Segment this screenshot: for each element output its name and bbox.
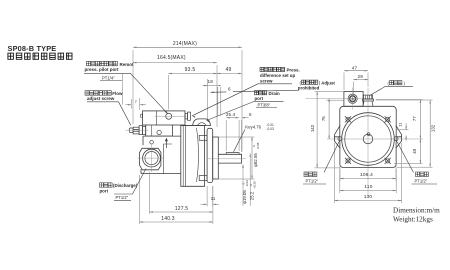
svg-text:(: (	[388, 81, 390, 86]
svg-text:difference set up: difference set up	[260, 73, 295, 78]
front view centerlines	[367, 88, 369, 196]
remote pilot port hole on block	[166, 113, 172, 119]
discharge port circles	[143, 149, 161, 167]
svg-text:7: 7	[135, 99, 138, 104]
svg-text:Key4.76: Key4.76	[245, 124, 261, 129]
shaft circle front view	[363, 134, 373, 144]
dim 11 flange thickness	[206, 186, 208, 207]
svg-text:25.4: 25.4	[226, 112, 236, 117]
right mounting tab	[396, 125, 402, 148]
dim 47	[343, 73, 345, 91]
pump rear housing side view	[141, 136, 181, 174]
pump body inner circle	[345, 116, 391, 162]
control block side view	[143, 111, 186, 125]
dome cap on top	[193, 119, 211, 126]
svg-text:Weight:12kgs: Weight:12kgs	[393, 216, 433, 224]
control block front view	[344, 92, 363, 107]
svg-text:142: 142	[310, 124, 315, 132]
svg-text:49: 49	[412, 148, 417, 153]
leader adjust prohibited	[233, 90, 299, 92]
svg-text:127.5: 127.5	[175, 206, 189, 212]
svg-text:93.5: 93.5	[185, 67, 196, 73]
dim 49	[216, 65, 218, 127]
leader drain port	[207, 102, 254, 121]
dim dia 82.55 spigot	[219, 136, 255, 138]
dim 25.4 key length	[225, 120, 227, 151]
pump front housing side view	[181, 126, 205, 187]
svg-text:25.2: 25.2	[250, 191, 255, 200]
bolt on sub-block	[157, 130, 161, 134]
dim 6	[217, 87, 219, 116]
svg-text:φ19.05: φ19.05	[242, 190, 247, 204]
sub-block below control block	[146, 125, 173, 136]
svg-text:): )	[404, 81, 406, 86]
leader air bleed	[370, 86, 386, 95]
svg-text:164.5(MAX): 164.5(MAX)	[157, 55, 186, 61]
svg-text:PT1/2": PT1/2"	[306, 179, 319, 184]
shaft side view	[218, 154, 241, 163]
svg-text:110: 110	[364, 184, 372, 190]
svg-text:-0.05: -0.05	[256, 142, 260, 149]
front flange plate	[340, 106, 396, 167]
svg-text:adjust screw: adjust screw	[87, 96, 115, 101]
svg-text:Remot: Remot	[120, 62, 135, 67]
svg-text:132: 132	[431, 124, 436, 132]
label adjust prohibited	[298, 80, 336, 91]
barrel curve inside front housing	[197, 128, 199, 182]
keyway circle front view	[367, 133, 370, 136]
dim 142	[315, 91, 345, 93]
discharge boss octagon	[140, 148, 161, 170]
svg-text:77: 77	[412, 116, 417, 121]
dim 164.5(MAX)	[133, 62, 217, 64]
svg-text:5: 5	[249, 112, 252, 117]
dim 110	[339, 169, 341, 193]
dim 106.4	[339, 142, 341, 182]
svg-text:press. pilot port: press. pilot port	[85, 67, 120, 72]
svg-text:(Discharge): (Discharge)	[113, 183, 138, 188]
dim 49 front	[419, 139, 421, 164]
dim 18	[207, 79, 209, 121]
svg-text:76: 76	[321, 116, 326, 121]
svg-text:11: 11	[398, 123, 403, 127]
svg-text:214(MAX): 214(MAX)	[173, 41, 197, 47]
label remote press pilot port	[87, 61, 118, 66]
air bleed screw front view	[363, 95, 374, 106]
svg-text:prohibited: prohibited	[298, 86, 320, 91]
dim dia 19.05 shaft	[242, 165, 244, 207]
svg-text:-0.03: -0.03	[267, 127, 274, 131]
shaft key	[226, 153, 239, 155]
dim 127.5	[149, 172, 151, 214]
svg-text:screw: screw	[260, 78, 273, 83]
dim 93.5	[167, 75, 169, 110]
svg-text:PT1/2": PT1/2"	[415, 179, 428, 184]
svg-text:φ82.55: φ82.55	[253, 153, 258, 167]
svg-text:port: port	[100, 189, 109, 194]
mounting flange side view	[207, 128, 213, 182]
label inlet port front view	[416, 172, 429, 177]
leader flow adjust screw	[119, 102, 131, 126]
svg-text:Drain: Drain	[269, 91, 281, 96]
shaft centerline	[207, 158, 246, 160]
adjust arrow symbol	[165, 141, 167, 148]
flange bolts side view	[199, 135, 207, 140]
small dim screw 13.5	[122, 74, 124, 105]
small tab on block left	[141, 114, 143, 117]
dim 5	[241, 120, 243, 152]
leader discharge front	[324, 141, 339, 173]
left mounting tab	[334, 125, 340, 148]
centerline ext right	[405, 138, 423, 140]
flange spigot	[213, 137, 219, 179]
label air bleed	[388, 81, 406, 86]
leader remote pilot port	[130, 73, 167, 114]
svg-text:106.4: 106.4	[360, 172, 373, 178]
label discharge port front view	[304, 172, 317, 177]
dim 214(MAX)	[132, 50, 134, 124]
label press difference set up screw	[260, 67, 285, 71]
svg-text:Dimension:m/m: Dimension:m/m	[393, 207, 440, 215]
dim 11 front	[397, 129, 409, 131]
press difference screw on block	[185, 114, 188, 119]
svg-text:PT1/4": PT1/4"	[102, 75, 115, 80]
svg-text:+0.25: +0.25	[253, 181, 257, 189]
svg-text:PT3/8": PT3/8"	[258, 102, 271, 107]
dim 76	[327, 99, 345, 101]
svg-text:SP08-B TYPE: SP08-B TYPE	[8, 44, 57, 53]
leader discharge port	[133, 169, 147, 195]
svg-text:6: 6	[228, 87, 231, 92]
dim 77	[376, 99, 423, 101]
dim 140.3	[139, 175, 141, 224]
svg-text:49: 49	[225, 67, 231, 73]
svg-text:Adjust: Adjust	[321, 80, 335, 85]
label flow adjust screw	[85, 91, 111, 96]
pump body outer circle	[342, 113, 395, 166]
dim 130	[333, 143, 335, 203]
dim 132	[376, 99, 433, 101]
svg-text:18: 18	[208, 79, 214, 84]
boss bolt top	[150, 140, 154, 144]
dim 29	[352, 82, 354, 95]
svg-text:11: 11	[211, 196, 216, 201]
svg-text:130: 130	[364, 194, 373, 200]
leader key	[234, 130, 246, 152]
svg-text:PT1/2": PT1/2"	[116, 195, 129, 200]
svg-text:47: 47	[352, 65, 358, 70]
svg-text:140.3: 140.3	[161, 216, 175, 222]
label drain port	[255, 91, 267, 95]
pilot port front view	[348, 94, 357, 103]
leader press difference screw	[192, 84, 258, 116]
remote pilot screw fitting left	[129, 126, 145, 135]
leader inlet front	[397, 141, 414, 173]
svg-text:29: 29	[358, 74, 364, 79]
flange bolts front view	[345, 116, 351, 122]
dim 25.2 key height	[249, 154, 251, 207]
label discharge port side view	[100, 183, 113, 187]
title chinese 壓力引導式遙控型	[8, 53, 72, 59]
svg-text:port: port	[255, 96, 264, 101]
rear housing boss attach edge	[164, 144, 173, 174]
svg-text:Press.: Press.	[287, 68, 300, 73]
